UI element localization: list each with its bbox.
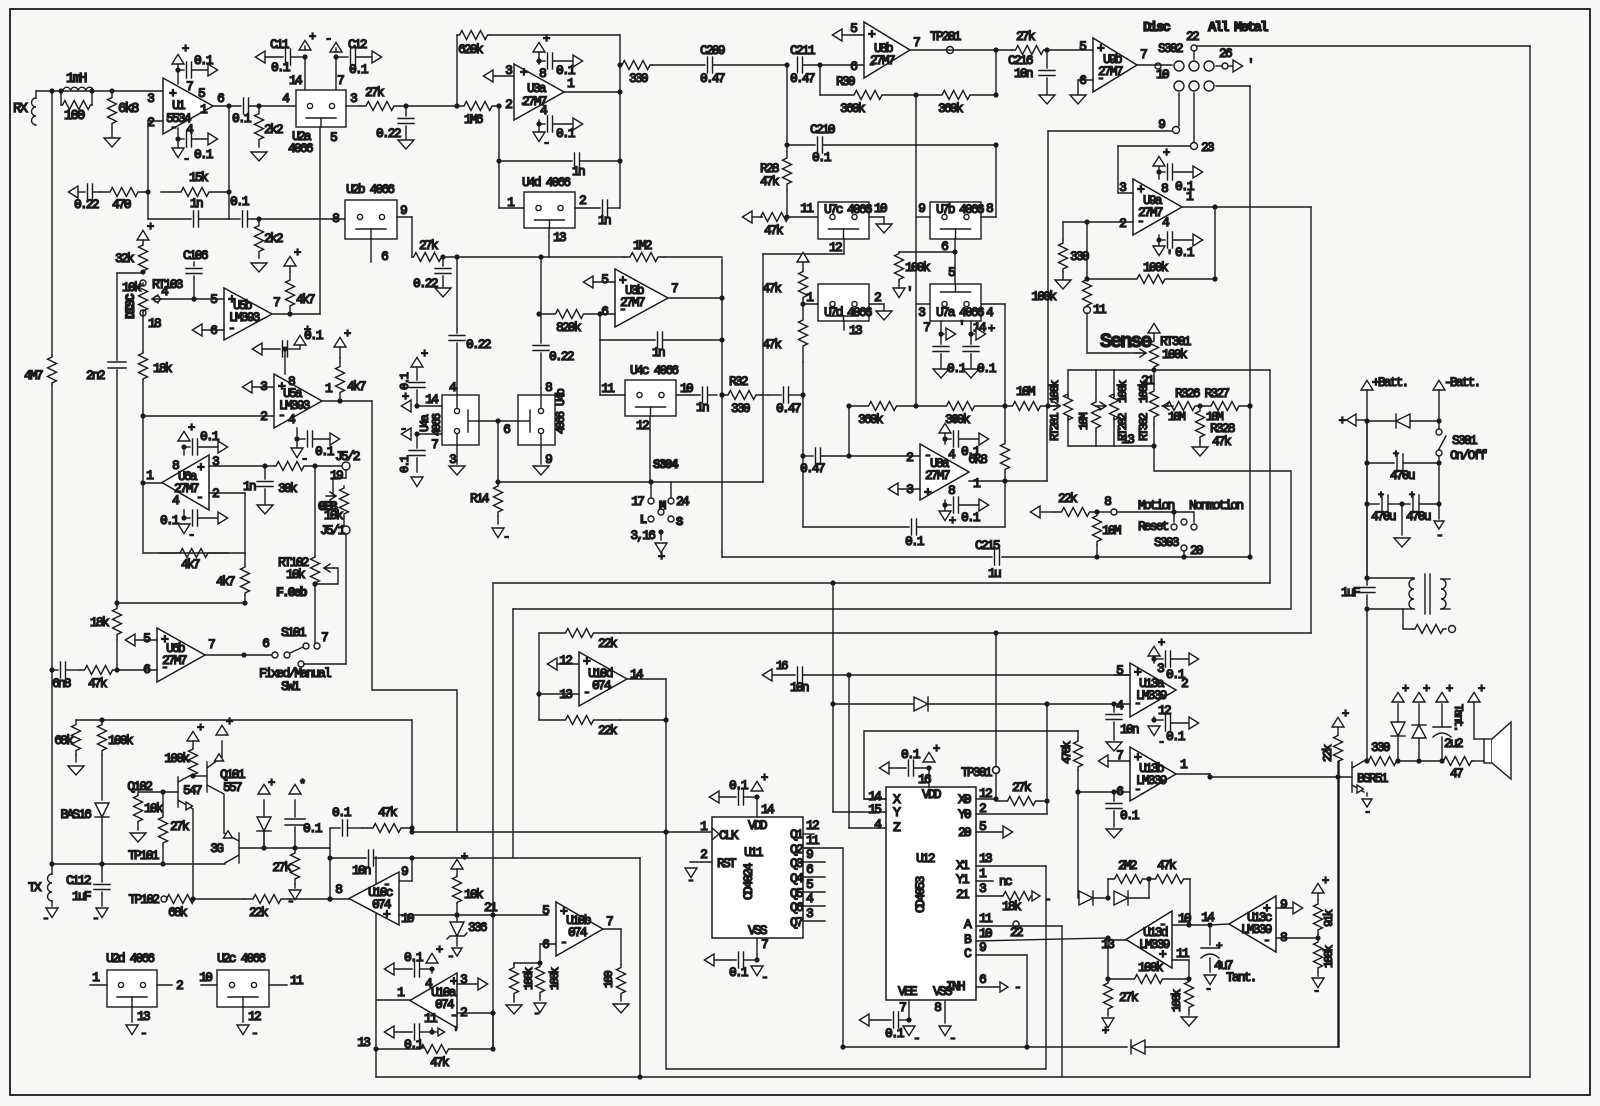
wire (117, 272, 143, 274)
svg-text:100k: 100k (522, 967, 536, 990)
op-amp U5a LM393 (274, 374, 322, 428)
wire x1250 (1247, 403, 1252, 408)
svg-text:1u: 1u (988, 566, 1001, 581)
diode LED2 (1398, 760, 1419, 762)
wire box right x640 (639, 858, 641, 1077)
wire S101 bottom to J5/1 (304, 663, 346, 665)
arrow input 5 (583, 276, 593, 288)
wire (1366, 421, 1368, 504)
switch U4d 4066 (524, 192, 575, 228)
resistor 1M6 (454, 103, 459, 108)
capacitor 0.1 (U11 VDD) (709, 791, 719, 803)
ground U9b pin6 (1078, 79, 1093, 81)
svg-text:0.47: 0.47 (776, 401, 801, 416)
wire U10d out (627, 678, 666, 680)
resistor 2M2 (1107, 879, 1109, 898)
svg-text:470u: 470u (1390, 468, 1415, 483)
svg-text:10M: 10M (1102, 523, 1121, 538)
capacitor 0.1 (U10a V+) (431, 969, 433, 973)
svg-text:U7a: U7a (936, 305, 956, 320)
svg-text:1uF: 1uF (1341, 585, 1360, 600)
svg-text:23: 23 (1201, 140, 1214, 155)
switch U7b 4066 (930, 202, 981, 239)
svg-text:47k: 47k (1212, 434, 1232, 449)
wire x722 column (721, 259, 723, 552)
svg-text:820k: 820k (556, 320, 582, 335)
op-amp U3a 27M7 (514, 64, 564, 120)
net 22 circle (1013, 921, 1019, 927)
wire x412 (411, 720, 413, 828)
svg-text:4k7: 4k7 (296, 292, 315, 307)
svg-text:2u2: 2u2 (1444, 736, 1463, 751)
op-amp U10d 074 (579, 652, 627, 706)
svg-text:0.1: 0.1 (404, 950, 424, 965)
resistor 18k (upper) (142, 313, 144, 352)
svg-text:+Batt.: +Batt. (1372, 375, 1407, 390)
svg-text:1M6: 1M6 (464, 112, 483, 127)
svg-text:470u: 470u (1406, 509, 1431, 524)
svg-text:-: - (1097, 71, 1103, 86)
resistor 22k (244, 895, 290, 904)
svg-text:0.1: 0.1 (905, 534, 925, 549)
svg-text:22k: 22k (249, 905, 269, 920)
wire U1 output (213, 105, 241, 107)
capacitor 0.1 (U11 VSS) (704, 954, 714, 966)
svg-text:-: - (868, 57, 874, 72)
svg-text:26: 26 (1219, 46, 1232, 61)
svg-text:10: 10 (979, 926, 992, 941)
svg-text:47k: 47k (88, 676, 108, 691)
wire net8 (1097, 511, 1110, 513)
svg-text:S101: S101 (281, 625, 307, 640)
diode (battery) (1367, 420, 1396, 422)
wire U13c input (1210, 924, 1229, 925)
switch U4a 4066 (rot) (442, 395, 479, 445)
svg-text:2k2: 2k2 (264, 231, 283, 246)
svg-text:-: - (583, 685, 589, 700)
resistor 100 (617, 965, 626, 996)
svg-text:Reset: Reset (1138, 519, 1169, 534)
svg-text:0.22: 0.22 (413, 276, 438, 291)
svg-text:0.1: 0.1 (404, 1037, 424, 1052)
svg-text:C209: C209 (700, 43, 725, 58)
pot block frame (1067, 370, 1069, 398)
svg-text:100k: 100k (1031, 289, 1057, 304)
svg-text:X0: X0 (958, 792, 971, 807)
test point TP201 (910, 49, 1012, 51)
diode LED (263, 800, 265, 848)
capacitor 0.1 (U12 VEE) (859, 1014, 869, 1026)
resistor 10k (451, 859, 463, 869)
wire U13b out to BSR51 base (1176, 773, 1210, 775)
capacitor 0.1 (330, 827, 340, 829)
svg-text:TP301: TP301 (961, 765, 993, 780)
wire (264, 847, 330, 849)
connector J5/2 (315, 465, 341, 467)
resistor 470k (1077, 731, 1079, 738)
capacitor 1n (U3a fb) (496, 103, 501, 108)
svg-text:3,16: 3,16 (630, 528, 655, 543)
wire x493 lower (492, 915, 494, 1049)
resistor 1M2 (624, 253, 664, 262)
svg-text:360k: 360k (840, 101, 866, 116)
capacitor C216 10n (1046, 50, 1048, 68)
wire U4c pin12 / S304 (649, 416, 651, 430)
svg-text:13: 13 (979, 851, 992, 866)
svg-text:F.Geb: F.Geb (276, 585, 308, 600)
wire U13a pin5 (1114, 674, 1130, 676)
svg-text:0.1: 0.1 (315, 444, 335, 459)
wire sense top (1068, 369, 1270, 371)
svg-text:13: 13 (357, 1035, 370, 1050)
resistor R327 10M (1197, 403, 1202, 408)
svg-text:4066: 4066 (959, 202, 984, 217)
svg-text:-: - (161, 660, 167, 675)
op-amp U13c LM339 (output left) (1229, 896, 1276, 952)
wire 470k top (1077, 730, 1079, 732)
resistor 22k (1030, 506, 1040, 518)
pin CLK 1 (712, 828, 719, 840)
svg-text:U2b 4066: U2b 4066 (346, 182, 394, 197)
resistor 4k7 (U5b out) (272, 313, 320, 315)
svg-text:-: - (503, 530, 509, 544)
svg-text:RST: RST (717, 856, 737, 871)
wire U10d pin13 (536, 691, 541, 696)
svg-text:27k: 27k (272, 860, 292, 875)
transformer T1 (1367, 577, 1414, 579)
wire contact 9 (1178, 93, 1180, 126)
pin RST 2 (690, 861, 712, 863)
svg-text:0.1: 0.1 (303, 821, 323, 836)
wire U6a input (142, 416, 144, 483)
op-amp U9b 27M7 (1093, 38, 1137, 92)
resistor 32k (137, 230, 149, 240)
wire tap resistor (1403, 609, 1412, 629)
switch U2a 4066 (296, 90, 346, 127)
svg-text:-: - (1205, 982, 1211, 996)
svg-text:U4d 4066: U4d 4066 (522, 175, 570, 190)
svg-text:C112: C112 (66, 873, 91, 888)
svg-text:100k: 100k (1162, 347, 1188, 362)
arrow input 12 (547, 658, 557, 670)
wire U5a out (322, 400, 372, 402)
op-amp U8b 27M7 (864, 22, 910, 78)
svg-text:1mH: 1mH (66, 71, 87, 87)
switch S303 (1173, 512, 1175, 522)
resistor 27k (X0) (996, 797, 1047, 806)
svg-text:-: - (325, 32, 331, 46)
svg-text:47k: 47k (430, 1055, 450, 1070)
wire RT102 to S101 (314, 584, 316, 643)
svg-text:2M2: 2M2 (1118, 858, 1137, 873)
ground (251, 152, 267, 161)
svg-text:4k7: 4k7 (216, 574, 235, 589)
svg-text:1M2: 1M2 (633, 238, 652, 253)
svg-text:10: 10 (401, 911, 414, 926)
ground (1401, 504, 1403, 535)
IC U11 CD4024 (712, 817, 803, 938)
op-amp U1 5534 (163, 78, 213, 134)
svg-text:27k: 27k (170, 819, 190, 834)
wire y482 line (498, 481, 763, 483)
svg-text:13: 13 (137, 1009, 150, 1024)
svg-text:': ' (1166, 249, 1171, 263)
svg-text:U4b: U4b (554, 388, 568, 406)
svg-text:LM339: LM339 (1136, 688, 1167, 703)
op-amp U13d LM339 (output left) (1126, 911, 1172, 968)
svg-text:': ' (958, 319, 964, 334)
wire U13d out (net13) (1108, 939, 1126, 941)
capacitor 0.1 (U3a V-) (538, 120, 540, 132)
wire net13 47k (373, 1046, 378, 1051)
wire U3b out (668, 297, 722, 299)
resistor 100k (U9a fb) (1086, 222, 1088, 279)
arrow + out (1346, 414, 1356, 426)
resistor R30 360k (819, 65, 821, 95)
capacitor 0.1 (U13a V-) (1153, 717, 1155, 720)
svg-text:6k8: 6k8 (968, 452, 987, 467)
svg-text:VEE: VEE (898, 984, 918, 999)
svg-text:4066: 4066 (847, 202, 872, 217)
resistor 100k to 11 (1083, 279, 1092, 306)
capacitor 0.22 (403, 103, 408, 108)
svg-text:4066: 4066 (847, 305, 872, 320)
svg-text:-: - (301, 452, 307, 466)
resistor 10M vert (1095, 370, 1097, 398)
capacitor 0.1 (U6a V-) (183, 510, 185, 518)
capacitor 0.1 (U1 out) (243, 98, 245, 114)
svg-text:47k: 47k (762, 281, 782, 296)
capacitor 0.47 (U8a in) (800, 453, 805, 458)
svg-text:360k: 360k (938, 101, 964, 116)
svg-text:27k: 27k (1119, 990, 1139, 1005)
svg-text:R326 R327: R326 R327 (1175, 386, 1229, 401)
svg-text:074: 074 (568, 925, 588, 940)
svg-text:U2c 4066: U2c 4066 (217, 951, 265, 966)
svg-text:1n: 1n (190, 196, 203, 211)
svg-text:12: 12 (1158, 703, 1171, 718)
svg-text:VSS: VSS (748, 923, 768, 938)
wire CLK line (411, 828, 413, 832)
svg-text:S303: S303 (1154, 535, 1179, 550)
resistor 68k (TP102) (167, 895, 195, 904)
capacitor 0.1 (U9a V-) (1158, 235, 1160, 246)
ground (251, 263, 267, 272)
IC U12 CD4053 (886, 787, 976, 1000)
arrow minus (1438, 504, 1440, 519)
resistor 10M (1093, 512, 1102, 545)
resistor 27k (1012, 46, 1047, 55)
svg-text:-Batt.: -Batt. (1444, 375, 1479, 390)
wire RT103 wiper to U5b (160, 298, 224, 300)
svg-text:10M: 10M (1016, 384, 1035, 399)
svg-text:*: * (299, 778, 305, 792)
svg-text:30k: 30k (278, 481, 298, 496)
wire U2b pin9 to 27k (397, 216, 412, 218)
svg-text:C11: C11 (270, 37, 290, 52)
svg-text:-: - (560, 935, 566, 950)
wire 22k col down (1337, 777, 1339, 1047)
transistor Q102 547 (177, 777, 179, 807)
svg-text:10: 10 (874, 201, 887, 216)
wire U7d pin13 (843, 321, 845, 330)
wire A down (1061, 926, 1063, 1076)
svg-text:0.1: 0.1 (232, 111, 252, 126)
wire U9b out (1137, 64, 1172, 66)
capacitor 10n (330, 857, 366, 859)
op-amp U3b 27M7 (615, 269, 668, 327)
arrow V+ (U5a) (294, 335, 306, 345)
svg-text:0.22: 0.22 (466, 337, 491, 352)
op-amp U10a 074 (output left) (410, 973, 457, 1028)
resistor 47k (362, 824, 412, 833)
svg-text:0.1: 0.1 (961, 510, 981, 525)
op-amp U13b LM339 (1130, 747, 1176, 801)
capacitor 0.1 (U8a fb) (802, 395, 804, 527)
svg-text:16: 16 (776, 659, 788, 673)
capacitor 0.1 (U4a +) (411, 357, 423, 367)
svg-text:1n: 1n (572, 164, 585, 179)
svg-text:0.1: 0.1 (194, 53, 214, 68)
svg-text:-: - (42, 911, 48, 926)
svg-text:10k: 10k (464, 887, 484, 902)
svg-text:0.47: 0.47 (790, 71, 815, 86)
wire U5b out to U2a pin5 (319, 127, 321, 314)
wire 0.22 column (456, 257, 458, 333)
capacitor C106 (193, 262, 195, 266)
op-amp U13a LM339 (1130, 663, 1176, 717)
pot RT301 100k (1148, 323, 1160, 333)
svg-text:47k: 47k (1157, 858, 1177, 873)
wire (36, 90, 163, 92)
svg-text:Motion: Motion (1138, 498, 1175, 513)
svg-text:0.1: 0.1 (1166, 729, 1186, 744)
inductor 1mH (49, 88, 54, 93)
capacitor 0.1 (U8a V-) (944, 500, 946, 511)
wire 13 net (1154, 446, 1291, 608)
wire U7a pin7 cap 0.1 (940, 321, 942, 334)
switch U2b 4066 (345, 200, 397, 239)
svg-text:336: 336 (468, 920, 487, 935)
svg-text:': ' (1247, 57, 1253, 72)
wire U7b pin6 (954, 239, 956, 252)
resistor 100k (98, 720, 107, 755)
svg-text:6n8: 6n8 (52, 676, 71, 691)
wire rail y720 (76, 719, 412, 721)
svg-text:R14: R14 (470, 491, 490, 506)
svg-text:Y0: Y0 (958, 807, 971, 822)
svg-text:47k: 47k (762, 337, 782, 352)
svg-text:-: - (1134, 782, 1140, 797)
arrow input 3 (483, 70, 493, 82)
resistor 22k (top) (538, 633, 540, 694)
pin VSS 7 (756, 938, 758, 960)
pot RT102 10k F.Geb (314, 466, 316, 556)
svg-text:360k: 360k (858, 412, 884, 427)
zener 336 (454, 912, 459, 917)
wire Q2 to diode line (803, 848, 843, 1047)
svg-text:470u: 470u (1371, 509, 1396, 524)
svg-text:17: 17 (631, 494, 644, 509)
wire box left x376 (375, 857, 377, 1077)
capacitor 0.1 (U1 V+) (177, 64, 179, 84)
wire U4a pins (456, 388, 458, 408)
svg-text:0.1: 0.1 (349, 62, 369, 77)
svg-text:27k: 27k (1016, 29, 1036, 44)
svg-text:2n2: 2n2 (86, 368, 105, 383)
wire U9a out (1182, 206, 1311, 208)
wire S302 row2 (1216, 85, 1250, 87)
svg-text:330: 330 (1371, 740, 1390, 755)
svg-text:CD4053: CD4053 (913, 876, 928, 913)
svg-text:12: 12 (559, 653, 572, 668)
wire U4d pin13 (548, 228, 550, 237)
resistor 620k (456, 35, 458, 106)
svg-text:22k: 22k (1321, 744, 1335, 762)
wire net y704 (833, 703, 914, 705)
resistor 6k8 (109, 88, 114, 93)
svg-text:Q7: Q7 (790, 915, 803, 930)
svg-text:-: - (278, 408, 284, 423)
svg-text:0.1: 0.1 (160, 513, 180, 528)
wire U13d pin10 (1172, 924, 1189, 926)
wire x1047 (1046, 704, 1048, 814)
switch U4b 4066 (rot) (518, 395, 555, 445)
resistor 10k (137, 792, 139, 795)
resistor 4M7 (51, 91, 53, 355)
resistor R32 330 (719, 392, 724, 397)
wire x493 bus (492, 583, 494, 915)
svg-text:-: - (400, 422, 406, 436)
svg-text:22k: 22k (598, 636, 618, 651)
switch U7d 4066 (818, 284, 869, 321)
wire U13b pin6 (1078, 791, 1130, 793)
svg-text:15k: 15k (189, 170, 209, 185)
resistor 4k7 (U5a out) (334, 337, 346, 347)
wire 22k node up (329, 828, 331, 899)
svg-text:-: - (1014, 980, 1020, 995)
resistor 100k (536, 963, 545, 996)
capacitor 0.22 (U4b) (540, 257, 542, 343)
svg-text:27M7: 27M7 (925, 468, 950, 483)
svg-text:100k: 100k (1048, 380, 1062, 403)
svg-text:0.1: 0.1 (230, 194, 250, 209)
svg-text:0.1: 0.1 (729, 778, 749, 793)
op-amp U6b 27M7 (157, 628, 205, 682)
wire U7d pin1 (802, 299, 804, 304)
svg-text:3G: 3G (210, 841, 223, 856)
svg-text:J5/1: J5/1 (320, 523, 346, 538)
resistor 330 (617, 62, 622, 67)
svg-text:0.1: 0.1 (885, 1026, 905, 1041)
wire U13c pin8 (1276, 937, 1318, 939)
svg-text:0.22: 0.22 (74, 197, 99, 212)
resistor 27k (346, 105, 360, 107)
wire (619, 35, 621, 65)
svg-text:0.1: 0.1 (398, 455, 412, 473)
svg-text:R30: R30 (836, 74, 855, 89)
svg-text:100k: 100k (1143, 260, 1169, 275)
svg-text:18k: 18k (1002, 899, 1022, 914)
svg-text:J5/2: J5/2 (335, 449, 360, 464)
svg-text:330: 330 (731, 401, 750, 416)
svg-text:1n: 1n (696, 400, 709, 415)
resistor 100 (60, 91, 62, 105)
wire U7a pin4 (981, 303, 1005, 305)
wire x996 TP301 (995, 633, 997, 766)
svg-text:4M7: 4M7 (24, 368, 43, 383)
resistor 2k2 (255, 106, 264, 147)
